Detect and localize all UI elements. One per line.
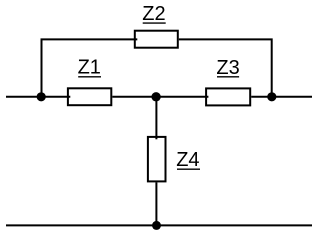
svg-text:Z4: Z4 xyxy=(176,149,199,171)
junction node middle xyxy=(151,92,160,101)
wire middle vertical lower segment xyxy=(155,182,157,225)
wire middle vertical upper segment xyxy=(155,97,157,140)
wire main horizontal left segment xyxy=(6,96,70,98)
label Z1 xyxy=(78,57,101,79)
junction node bottom xyxy=(152,221,161,230)
svg-text:Z2: Z2 xyxy=(142,3,165,25)
svg-text:Z3: Z3 xyxy=(216,57,239,79)
impedance Z2 xyxy=(135,31,178,48)
label Z3 xyxy=(216,57,239,79)
impedance Z3 xyxy=(206,88,250,105)
wire bottom horizontal xyxy=(6,224,312,226)
label Z2 xyxy=(142,3,165,25)
label Z4 xyxy=(176,149,200,171)
junction node left xyxy=(37,92,46,101)
impedance Z1 xyxy=(68,88,111,105)
wire top-right branch (top horizontal from Z2 + right vertical) xyxy=(179,39,272,96)
impedance Z4 xyxy=(148,137,166,182)
junction node right xyxy=(267,92,276,101)
wire top-left branch (left vertical + top horizontal to Z2) xyxy=(42,39,138,96)
svg-text:Z1: Z1 xyxy=(78,57,101,79)
wire main horizontal middle segment xyxy=(112,96,208,98)
wire main horizontal right segment xyxy=(251,96,312,98)
